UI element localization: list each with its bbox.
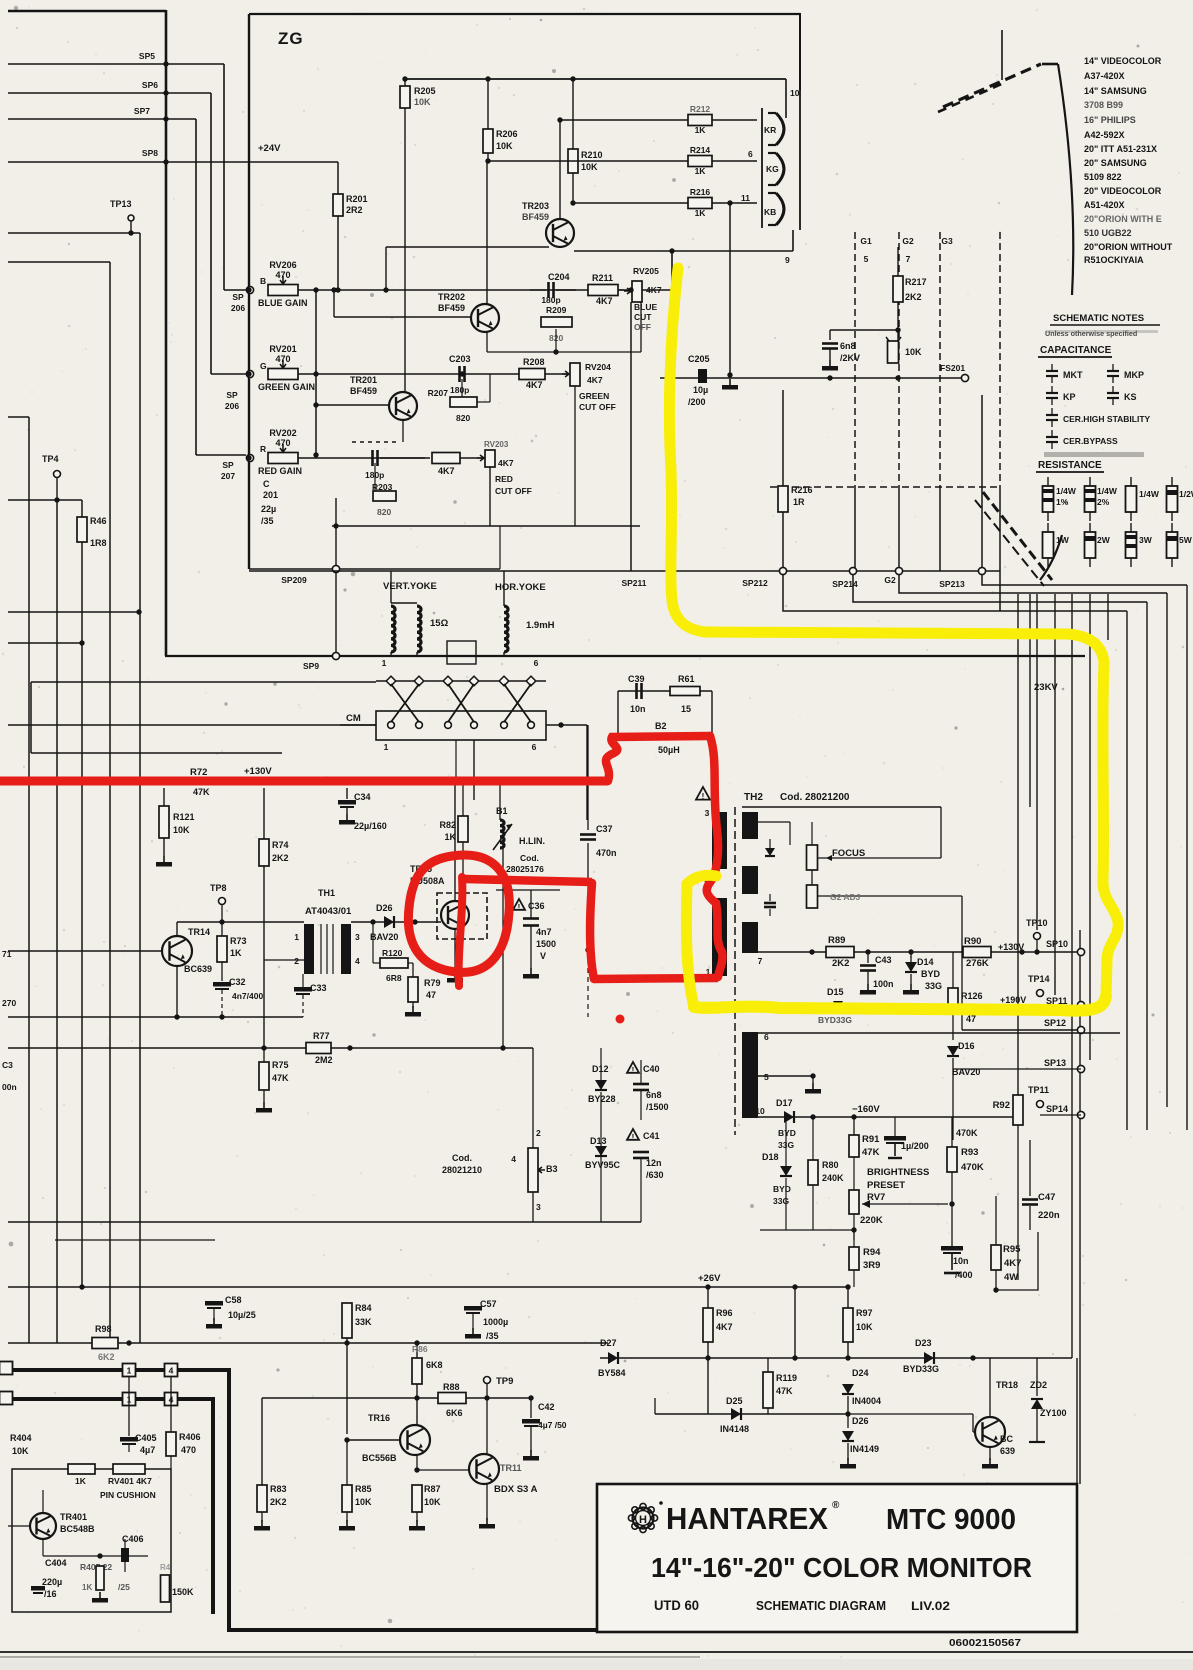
junction xyxy=(219,919,224,924)
svg-text:SP6: SP6 xyxy=(142,80,158,90)
svg-text:PIN CUSHION: PIN CUSHION xyxy=(100,1490,156,1500)
svg-text:C41: C41 xyxy=(643,1131,660,1141)
wire xyxy=(770,486,1000,488)
wire xyxy=(8,416,29,418)
svg-text:SP214: SP214 xyxy=(832,579,858,589)
svg-text:5W: 5W xyxy=(1179,535,1193,545)
junction xyxy=(163,61,168,66)
svg-text:FS201: FS201 xyxy=(940,363,965,373)
svg-text:14"-16"-20" COLOR MONITOR: 14"-16"-20" COLOR MONITOR xyxy=(651,1552,1032,1583)
svg-text:A51-420X: A51-420X xyxy=(1084,200,1125,210)
wire xyxy=(333,290,335,317)
connector pad SP212 xyxy=(779,567,786,574)
svg-text:R85: R85 xyxy=(355,1484,372,1494)
wire TR202 collector xyxy=(486,162,488,304)
svg-text:510 UGB22: 510 UGB22 xyxy=(1084,228,1132,238)
svg-text:/200: /200 xyxy=(688,397,706,407)
svg-text:1.9mH: 1.9mH xyxy=(526,620,555,631)
svg-text:SP9: SP9 xyxy=(303,661,319,671)
svg-text:BY228: BY228 xyxy=(588,1094,616,1104)
svg-text:276K: 276K xyxy=(966,958,989,969)
svg-text:/25: /25 xyxy=(118,1582,130,1592)
svg-text:50µH: 50µH xyxy=(658,745,680,755)
wire xyxy=(128,1377,130,1436)
svg-text:6K8: 6K8 xyxy=(426,1360,443,1370)
transistor TR201 xyxy=(389,392,417,420)
wire xyxy=(346,1440,348,1485)
connector pad SP209 xyxy=(332,565,339,572)
svg-text:C34: C34 xyxy=(354,792,371,802)
svg-text:28021210: 28021210 xyxy=(442,1165,482,1175)
wire xyxy=(28,417,30,1343)
svg-text:470: 470 xyxy=(275,270,290,280)
svg-text:C32: C32 xyxy=(229,977,246,987)
wire xyxy=(195,119,197,455)
svg-text:20"ORION WITHOUT: 20"ORION WITHOUT xyxy=(1084,242,1173,252)
svg-text:20" VIDEOCOLOR: 20" VIDEOCOLOR xyxy=(1084,186,1162,196)
svg-text:10K: 10K xyxy=(581,162,598,172)
wire xyxy=(1054,594,1056,995)
diode internal xyxy=(765,848,775,856)
wire xyxy=(8,161,338,163)
wire xyxy=(785,79,787,118)
wire xyxy=(848,1413,973,1415)
svg-text:4: 4 xyxy=(511,1154,516,1164)
transistor TR401 xyxy=(30,1513,56,1539)
marker yellow hook xyxy=(687,875,716,884)
svg-text:TP11: TP11 xyxy=(1028,1085,1049,1095)
svg-text:2: 2 xyxy=(536,1128,541,1138)
svg-text:C: C xyxy=(263,479,270,489)
svg-text:TR201: TR201 xyxy=(350,375,377,385)
connector CM box xyxy=(376,711,546,740)
svg-text:20" ITT A51-231X: 20" ITT A51-231X xyxy=(1084,144,1157,154)
capacitor C205 xyxy=(698,369,707,383)
legend KS xyxy=(1107,392,1119,394)
svg-text:+130V: +130V xyxy=(244,766,272,777)
svg-text:28025176: 28025176 xyxy=(506,864,544,874)
svg-text:D13: D13 xyxy=(590,1136,607,1146)
svg-text:SP209: SP209 xyxy=(281,575,307,585)
capacitor C42 xyxy=(530,1398,532,1418)
marker red bottom xyxy=(594,978,718,979)
marker red link xyxy=(465,879,592,882)
svg-text:1%: 1% xyxy=(1056,497,1069,507)
wire xyxy=(248,14,250,569)
wire xyxy=(8,1342,608,1344)
svg-text:+190V: +190V xyxy=(1000,995,1026,1005)
resistor R89 xyxy=(826,947,854,958)
connector pin xyxy=(471,722,478,729)
svg-text:R80: R80 xyxy=(822,1160,839,1170)
svg-text:2R2: 2R2 xyxy=(346,205,363,215)
svg-text:BY584: BY584 xyxy=(598,1368,626,1378)
junction xyxy=(827,375,832,380)
svg-text:470: 470 xyxy=(275,354,290,364)
svg-text:Cod.: Cod. xyxy=(452,1153,472,1163)
svg-text:C58: C58 xyxy=(225,1295,242,1305)
wire G1 xyxy=(854,232,856,487)
svg-text:4n7: 4n7 xyxy=(536,927,552,937)
svg-text:/35: /35 xyxy=(486,1331,499,1341)
junction xyxy=(414,1395,419,1400)
svg-text:BLUE GAIN: BLUE GAIN xyxy=(258,298,308,308)
hantarex logo xyxy=(633,1508,654,1529)
svg-text:CAPACITANCE: CAPACITANCE xyxy=(1040,345,1112,356)
marker yellow horizontal xyxy=(706,632,1104,662)
svg-text:TP14: TP14 xyxy=(1028,974,1050,984)
svg-text:5: 5 xyxy=(764,1072,769,1082)
diode D16 xyxy=(952,1040,954,1043)
svg-text:2K2: 2K2 xyxy=(270,1497,287,1507)
wire xyxy=(617,691,619,737)
svg-text:R75: R75 xyxy=(272,1060,289,1070)
wire xyxy=(1071,594,1073,1358)
wire TR201 base xyxy=(316,404,388,406)
wire xyxy=(8,232,140,234)
svg-text:R406: R406 xyxy=(179,1432,201,1442)
svg-text:IN4148: IN4148 xyxy=(720,1424,749,1434)
svg-text:R4: R4 xyxy=(160,1563,171,1572)
svg-text:UTD 60: UTD 60 xyxy=(654,1598,699,1613)
wire xyxy=(586,725,588,820)
svg-text:R208: R208 xyxy=(523,357,545,367)
svg-text:1500: 1500 xyxy=(536,939,556,949)
svg-text:6R8: 6R8 xyxy=(386,973,402,983)
svg-text:KB: KB xyxy=(764,207,776,217)
page border bottom xyxy=(0,1651,1193,1653)
svg-text:TH1: TH1 xyxy=(318,888,335,898)
svg-text:470: 470 xyxy=(275,438,290,448)
wire pin5 xyxy=(758,1075,813,1077)
transistor TR11 xyxy=(469,1454,499,1484)
wire xyxy=(351,921,441,923)
resistor 10K xyxy=(897,330,899,341)
CRT socket xyxy=(761,108,763,228)
capacitor 6n8/2KV xyxy=(822,342,838,345)
resistor R80 xyxy=(812,1117,814,1160)
svg-text:C47: C47 xyxy=(1038,1192,1055,1203)
svg-text:R46: R46 xyxy=(90,516,107,526)
wire xyxy=(165,10,168,656)
G2 pot xyxy=(807,885,818,908)
junction xyxy=(79,640,84,645)
svg-text:TP4: TP4 xyxy=(42,454,59,464)
junction xyxy=(558,722,563,727)
svg-text:ZY100: ZY100 xyxy=(1040,1408,1067,1418)
connector edge xyxy=(0,1362,13,1375)
resistor R73 xyxy=(221,922,223,936)
connector pin xyxy=(445,722,452,729)
svg-text:2K2: 2K2 xyxy=(905,292,922,302)
wire SP214 elbow xyxy=(853,575,1147,602)
resistor R94 xyxy=(853,1230,855,1247)
resistor R90 xyxy=(963,947,991,958)
marker red +130V line xyxy=(0,777,608,786)
svg-text:G1: G1 xyxy=(860,236,872,246)
svg-text:R209: R209 xyxy=(546,305,567,315)
svg-text:R206: R206 xyxy=(496,129,518,139)
svg-text:TR11: TR11 xyxy=(500,1463,522,1473)
svg-text:BYD33G: BYD33G xyxy=(818,1015,852,1025)
junction xyxy=(126,1340,131,1345)
wire xyxy=(574,250,793,252)
potentiometer RV206 xyxy=(268,285,298,296)
svg-text:/2KV: /2KV xyxy=(840,353,860,363)
potentiometer RV401 xyxy=(113,1464,145,1474)
wire xyxy=(460,457,485,459)
svg-text:C42: C42 xyxy=(538,1402,555,1412)
wire xyxy=(729,203,731,375)
wire xyxy=(639,283,641,526)
svg-text:820: 820 xyxy=(456,413,470,423)
svg-text:6K2: 6K2 xyxy=(98,1352,115,1362)
wire xyxy=(30,682,32,753)
svg-text:TR14: TR14 xyxy=(188,927,210,937)
winding bars xyxy=(712,812,727,869)
capacitor C57 xyxy=(472,1287,474,1305)
svg-text:RED: RED xyxy=(495,474,513,484)
capacitor C33 xyxy=(294,987,312,992)
resistor R97 xyxy=(847,1287,849,1308)
svg-text:/630: /630 xyxy=(646,1170,664,1180)
wire xyxy=(264,959,304,961)
svg-text:CM: CM xyxy=(346,713,361,724)
legend MKT xyxy=(1046,370,1058,372)
svg-text:71: 71 xyxy=(2,949,12,959)
svg-text:4K7: 4K7 xyxy=(498,458,514,468)
wire xyxy=(489,467,491,526)
svg-text:47: 47 xyxy=(426,990,436,1000)
wire G2 elbow xyxy=(899,575,1167,593)
connector pin xyxy=(469,676,479,686)
wire xyxy=(298,289,672,291)
transistor TR18 xyxy=(975,1417,1005,1447)
resistor R120 xyxy=(380,958,408,968)
focus pot xyxy=(807,845,818,870)
junction xyxy=(585,947,590,952)
svg-text:1: 1 xyxy=(382,658,387,668)
resistor R216b xyxy=(782,390,784,486)
wire xyxy=(139,233,141,1343)
wire xyxy=(1186,585,1188,1130)
junction xyxy=(128,230,133,235)
pot B3 xyxy=(532,1048,534,1148)
svg-text:R82: R82 xyxy=(439,820,456,830)
svg-text:C404: C404 xyxy=(45,1558,67,1568)
svg-text:BF459: BF459 xyxy=(438,303,465,313)
svg-text:R120: R120 xyxy=(382,948,403,958)
wire xyxy=(8,1221,641,1223)
connector pin xyxy=(388,722,395,729)
diode D23 xyxy=(924,1352,934,1364)
resistor R77 xyxy=(306,1043,331,1054)
svg-text:3: 3 xyxy=(355,932,360,942)
svg-text:RV206: RV206 xyxy=(269,260,296,270)
svg-text:R91: R91 xyxy=(862,1134,880,1145)
wire xyxy=(8,1470,12,1472)
svg-text:6: 6 xyxy=(748,149,753,159)
wire xyxy=(43,1555,148,1557)
wire KG row xyxy=(488,160,757,162)
svg-text:CUT OFF: CUT OFF xyxy=(579,402,616,412)
svg-text:R87: R87 xyxy=(424,1484,441,1494)
svg-text:SP: SP xyxy=(222,460,234,470)
svg-text:10: 10 xyxy=(790,88,800,98)
svg-text:1K: 1K xyxy=(695,166,707,176)
svg-text:SP10: SP10 xyxy=(1046,939,1068,949)
junction xyxy=(845,1355,850,1360)
svg-text:!: ! xyxy=(632,1133,635,1142)
legend 2W xyxy=(1085,532,1096,558)
svg-text:BYD: BYD xyxy=(778,1128,796,1138)
svg-text:R98: R98 xyxy=(95,1324,112,1334)
svg-text:SP12: SP12 xyxy=(1044,1018,1066,1028)
svg-text:10K: 10K xyxy=(355,1497,372,1507)
svg-text:C57: C57 xyxy=(480,1299,497,1309)
svg-text:R95: R95 xyxy=(1003,1244,1021,1255)
transistor TR203 xyxy=(546,219,574,247)
svg-text:12n: 12n xyxy=(646,1158,662,1168)
wire xyxy=(223,64,225,290)
wire xyxy=(600,1357,1072,1359)
wire xyxy=(176,922,178,936)
svg-text:RV401 4K7: RV401 4K7 xyxy=(108,1476,152,1486)
svg-text:15: 15 xyxy=(681,704,691,714)
svg-text:2K2: 2K2 xyxy=(272,853,289,863)
coil hor yoke xyxy=(504,606,508,652)
svg-text:R73: R73 xyxy=(230,936,247,946)
capacitor C46 xyxy=(941,1246,963,1251)
title box xyxy=(597,1484,1077,1632)
svg-text:R92: R92 xyxy=(993,1100,1010,1111)
svg-text:639: 639 xyxy=(1000,1446,1015,1456)
svg-text:!: ! xyxy=(632,1066,635,1075)
svg-text:MTC 9000: MTC 9000 xyxy=(886,1504,1016,1536)
diode D14 xyxy=(910,952,912,962)
resistor R98 xyxy=(92,1338,118,1349)
wire xyxy=(587,725,589,830)
svg-text:C203: C203 xyxy=(449,354,471,364)
marker red circle TR15 xyxy=(408,855,509,972)
connector 1 xyxy=(123,1393,136,1406)
wire xyxy=(455,740,457,782)
svg-text:R217: R217 xyxy=(905,277,927,287)
svg-text:R51OCKIYAIA: R51OCKIYAIA xyxy=(1084,255,1144,265)
legend KP xyxy=(1046,392,1058,394)
svg-text:3W: 3W xyxy=(1139,535,1153,545)
resistor R210 xyxy=(572,79,574,149)
connector pin xyxy=(386,676,396,686)
svg-text:R210: R210 xyxy=(581,150,603,160)
connector pad xyxy=(246,286,253,293)
resistor R46 xyxy=(81,500,83,517)
wire xyxy=(496,889,560,891)
wire SP211 drop xyxy=(671,251,673,571)
resistor R74 xyxy=(263,788,265,839)
wire 23KV xyxy=(1029,594,1031,807)
svg-text:SP14: SP14 xyxy=(1046,1104,1068,1114)
svg-text:4µ7 /50: 4µ7 /50 xyxy=(538,1420,567,1430)
wire xyxy=(1126,611,1128,1130)
svg-text:1/4W: 1/4W xyxy=(1139,489,1160,499)
svg-text:C43: C43 xyxy=(875,955,892,965)
wire bus x316 xyxy=(315,290,317,455)
svg-text:PRESET: PRESET xyxy=(867,1180,905,1191)
marker red left vert xyxy=(590,883,594,979)
wire focus xyxy=(818,857,941,859)
svg-text:TP9: TP9 xyxy=(496,1376,513,1387)
svg-text:C3: C3 xyxy=(2,1060,13,1070)
resistor R201 xyxy=(337,162,339,194)
wire xyxy=(56,500,58,1343)
svg-text:R207: R207 xyxy=(428,388,449,398)
svg-text:2: 2 xyxy=(294,956,299,966)
capacitor C34 xyxy=(346,788,348,799)
wire xyxy=(1017,1125,1019,1280)
svg-text:7: 7 xyxy=(758,956,763,966)
resistor R405 1K xyxy=(68,1464,95,1474)
svg-text:1: 1 xyxy=(384,742,389,752)
svg-text:CUT OFF: CUT OFF xyxy=(495,486,532,496)
resistor R86 xyxy=(416,1343,418,1358)
svg-text:B2: B2 xyxy=(655,721,667,731)
svg-text:/35: /35 xyxy=(261,516,274,526)
wire xyxy=(249,570,1000,572)
wire TR203 emitter xyxy=(386,246,549,248)
svg-text:9: 9 xyxy=(785,255,790,265)
resistor R206 xyxy=(487,79,489,129)
svg-text:3708 B99: 3708 B99 xyxy=(1084,100,1123,110)
resistor R79 xyxy=(408,962,413,964)
svg-text:10n: 10n xyxy=(953,1256,969,1266)
svg-text:/1500: /1500 xyxy=(646,1102,669,1112)
svg-text:1/4W: 1/4W xyxy=(1097,486,1118,496)
svg-text:10: 10 xyxy=(755,1106,765,1116)
wire xyxy=(473,740,475,800)
svg-text:LIV.02: LIV.02 xyxy=(911,1599,950,1613)
CRT bell xyxy=(1058,64,1073,295)
svg-text:SP212: SP212 xyxy=(742,578,768,588)
wire xyxy=(8,1525,30,1527)
svg-text:1R: 1R xyxy=(793,497,805,507)
svg-text:220K: 220K xyxy=(860,1215,883,1226)
connector pin xyxy=(414,676,424,686)
diode D13 xyxy=(595,1146,607,1156)
connector pin xyxy=(526,676,536,686)
svg-text:207: 207 xyxy=(221,471,235,481)
connector 4 xyxy=(165,1364,178,1377)
svg-text:06002150567: 06002150567 xyxy=(949,1637,1021,1649)
wire xyxy=(794,1287,796,1358)
svg-text:10K: 10K xyxy=(12,1446,29,1456)
resistor R212 1K xyxy=(688,115,712,126)
wire KB row xyxy=(573,202,757,204)
svg-text:Cod. 28021200: Cod. 28021200 xyxy=(780,792,850,803)
svg-text:KS: KS xyxy=(1124,392,1137,402)
svg-text:SP: SP xyxy=(232,292,244,302)
capacitor C41 xyxy=(627,1129,639,1140)
svg-text:AT4043/01: AT4043/01 xyxy=(305,906,352,917)
test point TP9 xyxy=(484,1377,491,1384)
svg-text:4: 4 xyxy=(169,1366,174,1376)
svg-text:47K: 47K xyxy=(193,787,210,797)
capacitor C32 xyxy=(221,962,223,981)
svg-text:10K: 10K xyxy=(496,141,513,151)
marker yellow left vertical xyxy=(686,884,694,1007)
svg-text:IN4149: IN4149 xyxy=(850,1444,879,1454)
svg-text:G2: G2 xyxy=(902,236,914,246)
